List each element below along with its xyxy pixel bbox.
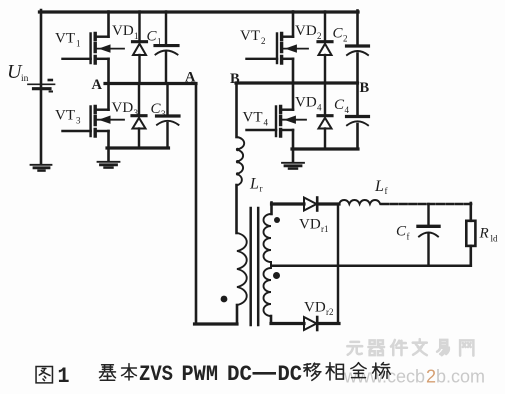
svg-text:C: C [151,101,162,117]
svg-text:ZVS: ZVS [139,362,173,387]
svg-text:VD: VD [112,23,134,39]
svg-text:DC: DC [278,362,303,387]
svg-text:C: C [334,97,345,113]
svg-text:1: 1 [76,39,81,49]
svg-text:VD: VD [299,217,321,233]
svg-text:f: f [407,232,410,242]
svg-text:r: r [260,184,263,194]
svg-text:4: 4 [345,105,350,115]
svg-text:r1: r1 [321,224,329,234]
svg-text:VT: VT [240,28,260,44]
svg-text:1: 1 [134,31,139,41]
svg-text:C: C [147,29,158,45]
svg-text:VD: VD [304,300,326,316]
svg-text:VD: VD [295,23,317,39]
svg-text:b.com: b.com [436,367,485,387]
svg-text:2: 2 [426,367,436,387]
svg-text:VT: VT [55,108,75,124]
svg-text:B: B [360,80,370,96]
svg-text:C: C [333,26,344,42]
svg-text:R: R [479,226,489,242]
svg-text:C: C [396,224,407,240]
svg-text:2: 2 [317,31,322,41]
svg-text:4: 4 [264,118,269,128]
svg-text:VD: VD [112,100,134,116]
svg-text:1: 1 [157,37,162,47]
svg-text:A: A [185,70,196,86]
svg-text:VT: VT [55,31,75,47]
svg-text:3: 3 [161,109,166,119]
svg-text:in: in [21,74,29,84]
svg-text:L: L [249,176,259,193]
svg-text:f: f [385,186,388,196]
svg-text:VD: VD [295,94,317,110]
svg-text:VT: VT [243,110,263,126]
svg-text:3: 3 [134,108,139,118]
svg-text:ld: ld [491,234,499,244]
svg-text:L: L [374,178,384,195]
svg-text:1: 1 [58,364,70,389]
svg-text:r2: r2 [326,307,334,317]
svg-text:2: 2 [343,34,348,44]
svg-text:PWM: PWM [182,362,219,387]
svg-text:2: 2 [261,36,266,46]
svg-text:3: 3 [76,116,81,126]
svg-text:A: A [92,77,103,93]
svg-text:B: B [230,71,240,87]
svg-text:4: 4 [317,102,322,112]
svg-text:DC: DC [227,362,252,387]
